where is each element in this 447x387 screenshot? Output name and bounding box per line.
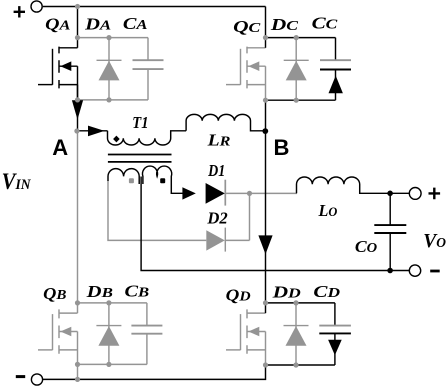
- wire: D1 cathode bar (gray): [224, 180, 226, 206]
- diode DC (body diode of QC): [284, 38, 309, 101]
- T1 secondary winding upper half: [108, 169, 139, 184]
- node: QC source cell junction: [263, 98, 268, 103]
- arrow: current down from B to QD: [258, 235, 272, 254]
- svg-text:DD: DD: [271, 283, 300, 302]
- wire: node B vertical from QC source to QD drain: [265, 100, 267, 313]
- arrow: primary current into T1: [88, 126, 105, 137]
- T1 secondary upper-half polarity dot (gray): [129, 178, 134, 183]
- arrow: current down from QA to node A: [72, 100, 83, 119]
- svg-text:QA: QA: [45, 14, 70, 33]
- output - terminal: [409, 265, 420, 276]
- svg-text:QC: QC: [233, 17, 261, 36]
- node: DC bottom junction: [294, 98, 299, 103]
- svg-text:VO: VO: [423, 231, 446, 252]
- wire: center tap down and output return rail: [141, 177, 409, 271]
- wire: top rail down to QC drain: [265, 7, 267, 48]
- node: output + junction: [387, 191, 393, 197]
- svg-text:LR: LR: [206, 130, 230, 149]
- svg-text:D2: D2: [206, 209, 228, 228]
- wire: QD cell top rail (black): [266, 302, 335, 304]
- + sign at input: [14, 6, 25, 17]
- node: DB top junction: [106, 300, 111, 305]
- svg-text:CO: CO: [355, 237, 377, 256]
- output + terminal: [409, 188, 421, 200]
- inductor LO (output filter): [297, 177, 410, 193]
- arrow: discharging current down through CD: [328, 340, 342, 355]
- capacitor CB: [131, 303, 162, 365]
- wire: QA cell bottom rail (gray): [78, 99, 149, 101]
- wire: QA cell top rail (gray): [78, 37, 149, 39]
- svg-text:DA: DA: [84, 14, 111, 33]
- wire: QA source down to node A: [77, 85, 79, 131]
- T1 primary polarity dot: [113, 136, 120, 143]
- svg-text:QD: QD: [226, 286, 251, 305]
- node: output - junction: [387, 268, 393, 274]
- diode D2 (output rectifier, gray): [206, 228, 225, 252]
- capacitor CD: [319, 303, 351, 365]
- svg-text:B: B: [274, 135, 290, 160]
- node: DD bottom junction: [293, 362, 298, 367]
- svg-text:VIN: VIN: [2, 169, 32, 194]
- wire: top rail down to QA drain: [77, 7, 79, 48]
- wire: secondary left lead down to D2 (gray): [108, 181, 206, 241]
- transistor QD (MOSFET, gray): [226, 309, 266, 365]
- node: DD top junction: [293, 300, 298, 305]
- wire: QB cell top rail (gray): [78, 302, 147, 304]
- node: QB to bottom rail junction: [75, 377, 80, 382]
- node: DA bottom junction: [106, 97, 111, 102]
- arrow: secondary current into D1: [182, 187, 195, 199]
- wire: QB cell bottom rail (gray): [78, 363, 147, 365]
- input + terminal: [31, 1, 42, 12]
- node: top rail / QA drain junction: [75, 4, 80, 9]
- transformer T1 primary winding: [108, 131, 187, 145]
- svg-text:LO: LO: [318, 201, 338, 220]
- diode DA (body diode of QA): [97, 38, 122, 100]
- svg-text:CB: CB: [125, 282, 150, 301]
- diode D1 (output rectifier, black): [206, 183, 225, 204]
- wire: QC cell bottom rail (black): [266, 99, 336, 101]
- svg-text:CA: CA: [123, 14, 148, 33]
- - sign at output: [430, 270, 440, 273]
- wire: QC cell top rail (black): [266, 37, 336, 39]
- node: QC drain cell junction: [263, 35, 268, 40]
- svg-text:QB: QB: [43, 284, 66, 303]
- wire: node A feed down to QB (gray): [77, 131, 79, 313]
- capacitor CA: [133, 38, 164, 100]
- node: QD drain cell junction: [263, 300, 268, 305]
- transistor QB (MOSFET, gray): [38, 309, 78, 364]
- node: QB drain cell junction: [75, 300, 80, 305]
- node: QA source cell junction: [75, 97, 80, 102]
- wire: bottom rail from - terminal to QD source: [43, 365, 266, 379]
- node: DB bottom junction: [106, 362, 111, 367]
- node: QB source cell junction: [75, 362, 80, 367]
- transistor QC (MOSFET, gray): [226, 47, 266, 101]
- node: QD source cell junction: [263, 362, 268, 367]
- wire: D2 cathode to D1 output node (gray): [225, 193, 249, 240]
- svg-text:CD: CD: [313, 282, 340, 301]
- svg-text:DC: DC: [270, 15, 299, 34]
- svg-text:DB: DB: [85, 282, 112, 301]
- node: D1 cathode output junction: [247, 191, 252, 196]
- svg-text:CC: CC: [312, 14, 339, 33]
- inductor LR (resonant): [186, 114, 262, 130]
- diode DD (body diode of QD): [284, 303, 309, 365]
- wire: D1 output to LO (gray): [225, 192, 297, 194]
- svg-text:D1: D1: [207, 161, 225, 180]
- node B junction dot: [262, 128, 268, 134]
- - sign at input: [16, 375, 25, 378]
- T1 core: [108, 155, 172, 162]
- wire: QB source to bottom rail (gray): [77, 364, 79, 379]
- + sign at output: [429, 188, 441, 200]
- transistor QA (MOSFET, active, black): [38, 47, 78, 100]
- svg-text:A: A: [52, 135, 68, 160]
- node: DA top junction: [106, 35, 111, 40]
- arrow: charging current up through CC: [329, 76, 343, 94]
- T1 secondary winding lower half: [143, 166, 184, 193]
- wire: top rail from + terminal: [43, 6, 266, 8]
- node: QA drain cell junction: [75, 35, 80, 40]
- svg-text:T1: T1: [132, 113, 148, 132]
- capacitor CC: [320, 38, 351, 101]
- capacitor CO (output filter): [374, 193, 406, 270]
- diode DB (body diode of QB): [96, 303, 121, 365]
- node: DC top junction: [294, 35, 299, 40]
- T1 secondary lower-half polarity dot (black): [160, 178, 165, 183]
- wire: node A to transformer primary: [78, 130, 108, 132]
- wire: QD cell bottom rail (black): [266, 364, 335, 366]
- node A junction dot (gray): [74, 128, 79, 133]
- input - terminal: [31, 374, 42, 385]
